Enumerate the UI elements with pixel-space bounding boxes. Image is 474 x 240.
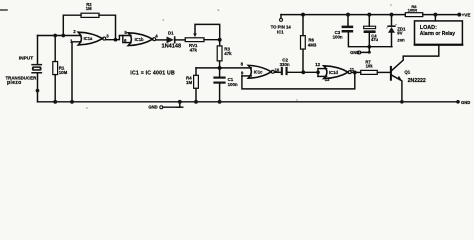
svg-text:3: 3 <box>106 33 109 38</box>
top supply rail <box>281 14 405 16</box>
wire transducer bottom lead <box>37 74 39 102</box>
wire input node horizontal <box>38 35 82 37</box>
node RV1/R3 junction <box>218 38 222 42</box>
svg-text:IC1 = IC 4001 UB: IC1 = IC 4001 UB <box>130 70 175 76</box>
wire transducer top lead <box>37 36 39 65</box>
op-amp gate IC1d (NOR) <box>324 66 348 79</box>
svg-text:2N2222: 2N2222 <box>408 78 426 84</box>
node input/R1 junction <box>53 34 57 38</box>
capacitor C4 47u electrolytic <box>364 26 376 28</box>
resistor R2 1M feedback <box>81 13 99 17</box>
svg-text:47u: 47u <box>371 37 379 42</box>
wire R4 bottom lead <box>195 88 197 102</box>
resistor R4 1M <box>194 75 199 88</box>
op-amp gate IC1b (NOR) <box>128 33 152 46</box>
wire ZD1 bottom lead <box>391 33 393 47</box>
resistor R3 47k <box>217 46 222 61</box>
svg-text:330n: 330n <box>280 62 290 67</box>
wire R3 top lead <box>219 40 221 46</box>
LOAD box <box>415 21 463 45</box>
node C2/R6 junction <box>301 70 305 74</box>
wire C1 bottom lead <box>219 84 221 102</box>
svg-text:11: 11 <box>350 67 355 72</box>
wire R3 bottom lead <box>219 61 221 68</box>
svg-text:9: 9 <box>241 70 244 75</box>
left edge scan artifact <box>0 9 7 11</box>
wire C4 bottom lead <box>368 33 370 47</box>
wire IC1c pin9 input <box>242 75 251 77</box>
node LOAD/rail junction <box>433 13 437 17</box>
svg-text:IC1b: IC1b <box>135 37 144 42</box>
svg-text:LOAD:: LOAD: <box>420 25 437 31</box>
wire RV1 to junction <box>204 39 220 41</box>
bottom ground bus wire <box>38 101 459 103</box>
terminal TO PIN 14 IC1 <box>280 15 282 19</box>
svg-text:47k: 47k <box>224 51 232 56</box>
junction blob on transducer lead <box>36 89 40 93</box>
svg-text:1M: 1M <box>86 6 92 11</box>
svg-text:Alarm or Relay: Alarm or Relay <box>420 31 456 37</box>
wire RV1 wiper loop <box>195 24 220 39</box>
svg-text:8: 8 <box>241 62 244 67</box>
wire feedback loop <box>242 72 355 89</box>
op-amp gate IC1c (NOR) <box>248 65 271 78</box>
resistor R7 10k <box>361 70 378 74</box>
wire C4 top lead <box>368 15 370 27</box>
wire IC1a pin1 ground lead <box>72 42 81 102</box>
svg-text:zen: zen <box>397 38 405 43</box>
svg-text:100n: 100n <box>333 35 343 40</box>
svg-text:D1: D1 <box>168 31 174 36</box>
node R2/input junction <box>61 34 65 38</box>
wire R6 top lead <box>302 15 304 36</box>
node pin1/bus junction <box>70 100 74 104</box>
svg-text:piezo: piezo <box>7 80 22 86</box>
wire R1 bottom lead <box>54 75 56 102</box>
svg-text:GND: GND <box>350 50 359 55</box>
node C3/rail junction <box>346 13 350 17</box>
node R6/rail junction <box>301 13 305 17</box>
wire IC1b output <box>156 39 167 41</box>
svg-text:1N4148: 1N4148 <box>162 43 182 49</box>
svg-text:INPUT: INPUT <box>19 56 33 62</box>
scan specks <box>86 5 392 109</box>
svg-text:1M: 1M <box>186 80 192 85</box>
ground terminal GND (mid right) <box>358 51 361 54</box>
wire C3 bottom lead to ground line <box>348 33 392 47</box>
svg-text:+VE: +VE <box>462 13 471 18</box>
node R2/output junction <box>114 38 118 42</box>
svg-text:13: 13 <box>325 77 330 82</box>
node emitter/bus junction <box>400 100 404 104</box>
transistor Q1 2N2222 <box>390 67 392 80</box>
node output/feedback junction <box>353 70 357 74</box>
svg-text:9V: 9V <box>397 30 402 35</box>
node R3/C1 junction <box>218 66 222 70</box>
resistor R8 100R <box>405 13 423 17</box>
svg-text:GND: GND <box>148 105 157 110</box>
wire R2 left <box>63 15 81 35</box>
terminal +VE <box>457 13 461 17</box>
wire R7 to base <box>377 71 390 73</box>
wire C1 top lead <box>219 68 221 77</box>
wire GND terminal to ground line <box>361 47 370 53</box>
svg-text:GND: GND <box>461 100 470 105</box>
node ZD1/rail junction <box>390 13 394 17</box>
svg-text:2: 2 <box>73 29 76 34</box>
svg-text:IC1: IC1 <box>277 30 284 35</box>
wire IC1a output <box>106 36 131 40</box>
wire IC1d input jog <box>317 69 319 77</box>
svg-text:10M: 10M <box>59 70 68 75</box>
wire R1 top lead <box>54 36 56 62</box>
transducer X1 piezo <box>31 64 42 74</box>
svg-text:10: 10 <box>275 67 280 72</box>
capacitor C3 100n <box>342 26 354 33</box>
ground terminal GND (left) <box>160 106 163 109</box>
resistor R1 10M <box>53 62 58 75</box>
svg-text:IC1d: IC1d <box>329 70 338 75</box>
svg-text:IC1a: IC1a <box>84 36 93 41</box>
svg-text:47k: 47k <box>190 47 198 52</box>
zener diode ZD1 9V <box>391 15 393 26</box>
svg-text:4: 4 <box>155 34 158 39</box>
node bus right terminal <box>456 100 460 104</box>
wire R2 right <box>99 15 116 40</box>
node GND/bus junction <box>178 100 182 104</box>
svg-text:100n: 100n <box>228 82 238 87</box>
svg-text:TO PIN 14: TO PIN 14 <box>271 24 292 29</box>
wire GND terminal to bus <box>163 102 180 107</box>
svg-text:10k: 10k <box>366 64 374 69</box>
wire D1 to RV1 <box>176 39 186 41</box>
wiper arrowhead <box>193 33 197 37</box>
node R4/bus junction <box>194 100 198 104</box>
wire R4 top lead <box>195 68 197 75</box>
wire IC1b input jog <box>123 36 131 43</box>
node IC1d input junction <box>316 70 320 74</box>
wire mid node horizontal (R4/C1 to IC1c pin 8) <box>196 67 251 69</box>
svg-text:100R: 100R <box>408 8 418 13</box>
node R1/bus junction <box>53 100 57 104</box>
svg-text:12: 12 <box>315 62 320 67</box>
resistor R6 4M3 <box>301 36 306 50</box>
node C1/bus junction <box>218 100 222 104</box>
svg-text:4M3: 4M3 <box>308 42 317 47</box>
wire IC1c output to C2 <box>274 71 280 73</box>
potentiometer RV1 47k <box>185 38 204 42</box>
wire C3 top lead <box>347 15 349 26</box>
wire LOAD top lead <box>434 15 436 21</box>
wire IC1d output <box>351 71 360 73</box>
node C4/rail junction <box>367 13 371 17</box>
wire R6 bottom lead <box>302 49 304 72</box>
op-amp gate IC1a (NOR) <box>78 32 102 45</box>
capacitor C1 100n <box>213 77 225 84</box>
capacitor C2 330n <box>281 67 288 75</box>
svg-text:IC1c: IC1c <box>254 69 263 74</box>
diode D1 1N4148 <box>167 36 176 43</box>
node C4/ground line junction <box>367 45 371 49</box>
wire C2 to IC1d <box>288 71 318 73</box>
svg-text:Q1: Q1 <box>404 70 410 75</box>
